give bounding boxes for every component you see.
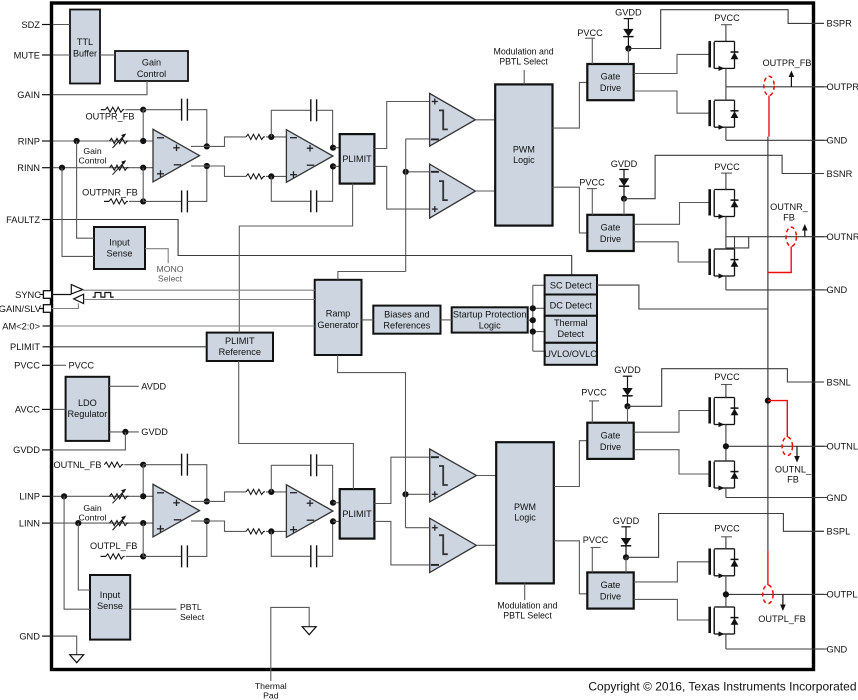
svg-text:OUTPNR_FB: OUTPNR_FB <box>82 187 138 197</box>
svg-text:GVDD: GVDD <box>615 7 642 17</box>
wire vert -input to fb-bottom <box>142 168 144 202</box>
wire output sense vertical <box>767 137 769 551</box>
wire high source to L-low output <box>725 576 727 595</box>
capacitor feedback bottom <box>181 190 183 212</box>
wire 2nd-stage cap top <box>271 110 311 137</box>
wire LDO to AVDD <box>109 385 139 387</box>
node 2nd stage bottom junction <box>268 173 274 179</box>
svg-text:Control: Control <box>137 69 166 79</box>
node ramp rail L <box>402 491 408 497</box>
svg-text:OUTNR: OUTNR <box>827 232 858 242</box>
svg-text:GVDD: GVDD <box>614 365 641 375</box>
svg-text:Input: Input <box>100 590 121 600</box>
node op1 -in junction <box>140 165 146 171</box>
svg-text:PVCC: PVCC <box>714 13 740 23</box>
svg-text:OUTPL_FB: OUTPL_FB <box>90 541 137 551</box>
svg-text:Input: Input <box>109 237 130 247</box>
wire PWM L to Modulation label <box>524 583 526 600</box>
sense ellipse OUTPR <box>764 76 774 95</box>
wire detect bracket <box>532 285 534 351</box>
comparator R top <box>430 93 476 146</box>
wire sense red OUTPL <box>767 550 769 585</box>
svg-text:OUTPL_FB: OUTPL_FB <box>758 614 805 624</box>
svg-text:Gate: Gate <box>601 430 621 440</box>
node op1 out+ junction <box>204 143 210 149</box>
node feedback-top junction <box>140 107 146 113</box>
node detect junction 1 <box>530 305 536 311</box>
wire low source to GND line <box>725 634 727 649</box>
node 2nd stage top junction <box>268 134 274 140</box>
svg-text:Thermal: Thermal <box>554 318 588 328</box>
svg-text:Logic: Logic <box>479 320 501 330</box>
op-amp input stage <box>153 129 200 182</box>
block Input Sense R <box>94 227 145 269</box>
block Gate Drive L-low <box>587 572 633 608</box>
wire PLIMIT pin to PLIMIT Reference <box>53 346 207 348</box>
wire cap to op1 out+ <box>187 465 206 502</box>
svg-text:OUTPR_FB: OUTPR_FB <box>85 112 134 122</box>
wire GVDD dot to Gate Drive L-high <box>627 406 629 422</box>
svg-text:PVCC: PVCC <box>579 177 605 187</box>
wire gate route low L-low <box>634 599 710 620</box>
wire gate route low R-low <box>634 242 710 262</box>
wire cap to op2 out- <box>317 521 333 556</box>
wire sync rail 2 to Ramp <box>84 299 315 301</box>
svg-text:Gate: Gate <box>601 580 621 590</box>
wire sense red OUTPR <box>768 96 770 137</box>
wire LINP column to Input Sense L <box>64 496 90 609</box>
wire PLIMIT-L bottom out to comparator <box>374 521 429 565</box>
svg-text:Biases and: Biases and <box>384 309 429 319</box>
svg-text:PVCC: PVCC <box>581 387 607 397</box>
wire op1+ to 2nd stage resistor <box>191 500 207 502</box>
wire gate route low R-high <box>634 91 710 113</box>
node input+ column <box>74 138 80 144</box>
svg-text:OUTPR_FB: OUTPR_FB <box>762 58 811 68</box>
wire vert fb-top to +input line <box>142 110 144 141</box>
wire thermal pad <box>271 607 309 681</box>
svg-text:Drive: Drive <box>600 83 621 93</box>
svg-text:Regulator: Regulator <box>67 409 107 419</box>
wire GAIN/SLV pad to buffer <box>52 303 79 308</box>
svg-text:TTL: TTL <box>77 37 93 47</box>
node op2 out+ junction <box>330 500 336 506</box>
wire GVDD dot to Gate Drive L-low <box>625 557 627 572</box>
svg-text:LINN: LINN <box>19 518 40 528</box>
buffer SYNC in <box>74 294 84 303</box>
wire high source to R-low output <box>725 217 727 237</box>
wire PLIMIT Reference to PLIMIT-L <box>239 361 354 489</box>
transistor low-side R-low <box>708 249 711 275</box>
svg-text:Logic: Logic <box>514 512 536 522</box>
wire gate route high L-low <box>634 562 710 582</box>
block PWM Logic R <box>495 84 552 225</box>
wire high source to R-high output <box>725 68 727 86</box>
wire PLIMIT-R top out to comparator <box>374 102 429 149</box>
wire feedback-top to cap <box>143 109 181 111</box>
svg-text:OUTPR: OUTPR <box>827 82 858 92</box>
wire R-low output to low drain <box>725 237 727 249</box>
wire low source to GND line <box>725 488 727 498</box>
wire OUTNR diode stub <box>734 237 736 249</box>
wire SDZ to TTL Buffer <box>53 24 70 26</box>
arrow OUTPR_FB <box>790 76 792 87</box>
node OUTNL junction <box>723 443 729 449</box>
svg-text:Modulation and: Modulation and <box>497 601 557 611</box>
svg-text:PVCC: PVCC <box>577 28 603 38</box>
node input- column <box>75 520 81 526</box>
wire Ramp to Biases <box>362 319 374 321</box>
wire GND line L-low <box>726 648 827 650</box>
wire GND line L-high <box>726 497 827 499</box>
svg-text:PLIMIT: PLIMIT <box>342 154 372 164</box>
svg-text:Pad: Pad <box>263 690 279 700</box>
transistor low-side L-high <box>708 461 711 487</box>
wire cap to op1 out- <box>187 521 206 556</box>
wire Startup to detect column <box>528 319 533 321</box>
wire PWM to Gate Drive L-low <box>554 541 588 594</box>
wire cap to op1 out+ <box>187 110 206 147</box>
svg-text:BSNR: BSNR <box>827 169 853 179</box>
node GVDD dot (bridge R-low) <box>621 196 627 202</box>
svg-text:FB: FB <box>783 212 795 222</box>
node op1 -in junction <box>140 520 146 526</box>
resistor feedback OUTPR_FB <box>101 109 106 111</box>
wire 2nd-stage cap top <box>271 465 311 492</box>
node op2 out- junction <box>330 163 336 169</box>
svg-text:PBTL Select: PBTL Select <box>499 57 548 67</box>
wire AM<2:0> rail to Ramp <box>53 325 315 327</box>
svg-text:Drive: Drive <box>600 592 621 602</box>
wire high source to L-high output <box>725 425 727 447</box>
node feedback-bottom junction <box>140 198 146 204</box>
wire GND line R-low <box>726 289 827 291</box>
node op1 out+ junction <box>204 498 210 504</box>
wire GVDD dot to Gate Drive R-low <box>623 199 625 215</box>
block PLIMIT Reference <box>207 333 273 361</box>
node input- column <box>59 165 65 171</box>
svg-text:GVDD: GVDD <box>613 516 640 526</box>
block Gain Control (top) <box>115 51 188 81</box>
svg-text:Reference: Reference <box>219 347 261 357</box>
node GVDD dot (bridge L-low) <box>623 554 629 560</box>
ground symbol (thermal pad) <box>302 627 316 635</box>
wire fb-bottom to cap <box>143 555 181 557</box>
wire op1- to 2nd stage resistor <box>191 520 207 522</box>
wire L-high output to low drain <box>725 446 727 461</box>
wire RINP column to Input Sense <box>77 141 94 238</box>
svg-text:PLIMIT: PLIMIT <box>10 342 40 352</box>
capacitor feedback top <box>181 454 183 476</box>
wire LDO to GVDD <box>109 431 139 433</box>
svg-text:PWM: PWM <box>514 502 536 512</box>
svg-text:Generator: Generator <box>317 320 358 330</box>
svg-text:PLIMIT: PLIMIT <box>225 336 255 346</box>
block Gate Drive R-high <box>587 64 633 100</box>
svg-text:BSNL: BSNL <box>827 377 851 387</box>
wire gate route high L-high <box>634 411 710 433</box>
svg-text:MUTE: MUTE <box>14 50 40 60</box>
wire GVDD dot to Gate Drive R-high <box>627 49 629 65</box>
node 2nd stage bottom junction <box>268 528 274 534</box>
svg-text:PVCC: PVCC <box>69 360 95 370</box>
comparator L bottom <box>430 518 477 572</box>
block DC Detect <box>545 295 597 316</box>
wire bootstrap BS route L-high <box>628 369 825 407</box>
resistor 2nd stage top <box>246 489 265 494</box>
svg-text:LDO: LDO <box>78 398 97 408</box>
wire sense red OUTNL <box>768 401 787 437</box>
node feedback-bottom junction <box>140 553 146 559</box>
diode GVDD (bridge L-high) <box>622 388 632 396</box>
wire 2nd-stage cap bottom <box>271 531 311 556</box>
transistor low-side R-high <box>708 100 711 126</box>
wire feedback-top to cap <box>143 464 181 466</box>
svg-text:RINN: RINN <box>17 163 40 173</box>
svg-text:Copyright © 2016, Texas Instru: Copyright © 2016, Texas Instruments Inco… <box>588 680 856 694</box>
svg-text:Sense: Sense <box>97 601 123 611</box>
wire bootstrap BS route R-high <box>628 10 824 49</box>
svg-text:Sense: Sense <box>106 248 132 258</box>
wire PWM to Gate Drive R-high <box>553 82 588 128</box>
wire L-high output line <box>726 445 827 447</box>
wire L-low output line <box>726 593 827 595</box>
wire op2 outputs to PLIMIT <box>333 147 340 149</box>
resistor 2nd stage top <box>246 134 265 139</box>
wire op2 outputs to PLIMIT <box>333 502 340 504</box>
wire ramp rail to comparators R <box>406 138 430 140</box>
svg-text:SC Detect: SC Detect <box>550 281 592 291</box>
wire gate route high R-high <box>634 54 710 73</box>
block Biases and References <box>373 306 440 334</box>
svg-text:GND: GND <box>827 493 848 503</box>
wire ramp rail to comparators L <box>406 493 430 495</box>
wire GND line R-high <box>726 139 827 141</box>
capacitor 2nd stage bottom <box>310 190 312 212</box>
svg-text:Startup Protection: Startup Protection <box>453 309 527 319</box>
svg-text:PBTL Select: PBTL Select <box>503 611 552 621</box>
transistor high-side L-low <box>708 549 711 575</box>
wire gate route high R-low <box>634 203 710 225</box>
waveform glyph sync <box>93 293 114 298</box>
sense ellipse OUTNR <box>786 227 796 246</box>
wire Input Sense to MONO Select <box>145 249 168 264</box>
wire vert fb-top to +input line <box>142 465 144 497</box>
wire cap to op2 out+ <box>317 465 333 502</box>
arrow OUTPL_FB <box>782 594 784 606</box>
svg-text:AM<2:0>: AM<2:0> <box>2 321 40 331</box>
svg-text:FAULTZ: FAULTZ <box>6 215 40 225</box>
label PVCC internal <box>53 364 66 366</box>
svg-text:UVLO/OVLO: UVLO/OVLO <box>544 349 597 359</box>
diode GVDD (bridge L-low) <box>621 538 631 546</box>
wire PLIMIT-R bottom out to comparator <box>374 166 429 209</box>
node op1 +in junction <box>140 138 146 144</box>
wire LINN column to Input Sense L <box>78 523 90 590</box>
svg-text:OUTNL_FB: OUTNL_FB <box>54 460 102 470</box>
wire PWM to Gate Drive R-low <box>553 187 588 233</box>
resistor 2nd stage bottom <box>246 174 265 179</box>
block PLIMIT <box>340 134 375 184</box>
node feedback-top junction <box>140 462 146 468</box>
wire R-high output line <box>726 86 827 88</box>
wire RINP line <box>53 140 153 142</box>
transistor high-side R-high <box>708 41 711 67</box>
svg-text:GVDD: GVDD <box>13 445 40 455</box>
sense ellipse OUTNL <box>782 437 792 456</box>
node GVDD dot (bridge R-high) <box>625 45 631 51</box>
arrow OUTNR_FB <box>804 229 806 237</box>
wire low source to GND line <box>725 127 727 140</box>
svg-text:GVDD: GVDD <box>611 159 638 169</box>
svg-text:PVCC: PVCC <box>714 524 740 534</box>
diode GVDD (bridge R-high) <box>623 29 633 37</box>
node 2nd stage top junction <box>268 489 274 495</box>
svg-text:PVCC: PVCC <box>583 535 609 545</box>
op-amp 2nd stage <box>286 130 333 183</box>
svg-text:DC Detect: DC Detect <box>550 301 593 311</box>
wire L-low output to low drain <box>725 594 727 607</box>
op-amp input stage <box>153 484 200 537</box>
wire MUTE to TTL Buffer <box>53 54 70 56</box>
wire PWM to Gate Drive L-high <box>554 441 588 487</box>
wire sync rail 1 to Ramp <box>83 289 315 291</box>
svg-text:OUTNL: OUTNL <box>827 442 858 452</box>
variable-resistor gain input- <box>110 521 129 526</box>
block Gate Drive L-high <box>587 423 633 459</box>
svg-text:PBTL: PBTL <box>180 602 202 612</box>
svg-text:OUTNR_: OUTNR_ <box>770 202 809 212</box>
wire AVCC to LDO <box>53 408 66 410</box>
node OUTPL junction <box>723 591 729 597</box>
svg-text:GAIN/SLV: GAIN/SLV <box>0 304 42 314</box>
wire FAULTZ to protection <box>53 220 572 276</box>
svg-text:Buffer: Buffer <box>73 48 97 58</box>
diode GVDD (bridge R-low) <box>619 178 629 186</box>
svg-text:FB: FB <box>787 475 799 485</box>
svg-text:PWM: PWM <box>513 144 535 154</box>
node op1 out- junction <box>204 163 210 169</box>
block UVLO/OVLO <box>545 343 597 365</box>
svg-text:SYNC: SYNC <box>15 290 41 300</box>
svg-text:PVCC: PVCC <box>714 372 740 382</box>
wire bootstrap BS route R-low <box>624 155 824 198</box>
svg-text:MONO: MONO <box>156 264 183 274</box>
wire RINN line <box>53 167 153 169</box>
wire R-low output line <box>726 236 827 238</box>
wire cap to op2 out+ <box>317 110 333 147</box>
wire op1- to 2nd stage resistor <box>191 165 207 167</box>
node input+ column <box>61 493 67 499</box>
block PWM Logic L <box>496 442 554 583</box>
arrow OUTNL_FB <box>796 446 798 457</box>
wire GND pin to ground <box>53 636 77 655</box>
wire RINN column to Input Sense <box>62 168 94 257</box>
node sense junction OUTNL <box>765 398 771 404</box>
wire sense red OUTNR <box>768 246 791 272</box>
block TTL Buffer <box>70 10 100 84</box>
wire GAIN pin to Gain Control <box>53 81 147 95</box>
node ramp rail R <box>403 169 409 175</box>
svg-text:Ramp: Ramp <box>326 309 351 319</box>
op-amp 2nd stage <box>286 485 333 538</box>
svg-text:Thermal: Thermal <box>255 681 287 691</box>
wire TTL Buffer to Gain Control <box>100 54 115 56</box>
capacitor 2nd stage top <box>310 454 312 476</box>
wire vert -input to fb-bottom <box>142 523 144 556</box>
svg-text:SDZ: SDZ <box>21 20 40 30</box>
wire PLIMIT-R to PLIMIT Reference <box>239 184 352 333</box>
wire fb-bottom to cap <box>143 200 181 202</box>
svg-text:References: References <box>383 320 430 330</box>
wire cap to op2 out- <box>317 166 333 201</box>
wire cap to op1 out- <box>187 166 206 201</box>
wire ramp rail into Ramp Generator <box>338 272 406 280</box>
svg-text:PLIMIT: PLIMIT <box>342 509 372 519</box>
wire Input Sense L to PBTL Select <box>130 608 176 610</box>
comparator L top <box>430 449 477 502</box>
block PLIMIT <box>340 489 375 538</box>
svg-text:Select: Select <box>180 612 205 622</box>
svg-text:AVCC: AVCC <box>15 405 40 415</box>
transistor high-side L-high <box>708 397 711 423</box>
resistor 2nd stage bottom <box>246 529 265 534</box>
node op1 out- junction <box>204 518 210 524</box>
svg-text:RINP: RINP <box>18 136 40 146</box>
ground symbol (GND pin) <box>70 655 84 663</box>
block LDO Regulator <box>66 377 110 441</box>
svg-text:Control: Control <box>78 156 106 166</box>
svg-text:Gate: Gate <box>601 72 621 82</box>
node op1 +in junction <box>140 493 146 499</box>
block Ramp Generator <box>315 280 362 355</box>
svg-text:GND: GND <box>19 631 40 641</box>
node detect junction 2 <box>530 317 536 323</box>
node detect junction 3 <box>530 329 536 335</box>
sense ellipse OUTPL <box>763 585 773 604</box>
svg-text:AVDD: AVDD <box>141 382 166 392</box>
svg-text:Gain: Gain <box>83 503 102 513</box>
svg-text:LINP: LINP <box>19 492 40 502</box>
wire ramp rail R vertical <box>405 139 407 272</box>
svg-text:PVCC: PVCC <box>714 162 740 172</box>
svg-text:GND: GND <box>827 285 848 295</box>
capacitor 2nd stage top <box>310 99 312 121</box>
wire gate route low L-high <box>634 450 710 474</box>
wire PLIMIT-L top out to comparator <box>374 457 429 503</box>
block Gate Drive R-low <box>587 215 633 251</box>
svg-text:Select: Select <box>158 273 183 283</box>
capacitor 2nd stage bottom <box>310 545 312 567</box>
wire GVDD to pin <box>52 432 126 450</box>
svg-text:Modulation and: Modulation and <box>494 46 554 56</box>
wire Biases to Startup <box>441 319 452 321</box>
wire SYNC pad to buffers <box>52 294 72 296</box>
svg-text:GND: GND <box>827 136 848 146</box>
svg-text:Detect: Detect <box>558 329 585 339</box>
block Input Sense L <box>90 575 130 640</box>
node op2 out- junction <box>330 518 336 524</box>
svg-text:GND: GND <box>827 644 848 654</box>
wire R-high output to low drain <box>725 87 727 100</box>
capacitor feedback bottom <box>181 545 183 567</box>
svg-text:Logic: Logic <box>513 155 535 165</box>
svg-text:Drive: Drive <box>600 234 621 244</box>
comparator R bottom <box>430 164 476 218</box>
svg-text:BSPR: BSPR <box>827 19 853 29</box>
svg-text:Drive: Drive <box>600 442 621 452</box>
wire 2nd-stage cap bottom <box>271 176 311 201</box>
